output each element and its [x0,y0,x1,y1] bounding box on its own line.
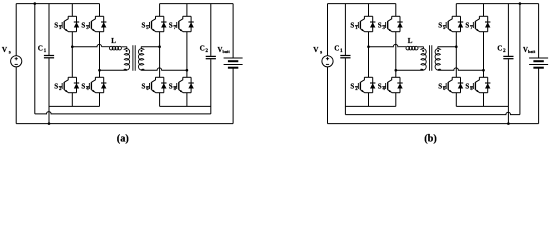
svg-text:S: S [465,83,469,91]
wire: C2 vertical bottom to tie bus (a) [210,59,212,114]
node: S7-S8 midpoint dot (a) [186,69,189,72]
wire: S5 leg to rail (b) [455,4,457,17]
wire: tie vertical from top rail (a) [34,4,36,114]
wire: S2 leg to lower rail (b) [368,93,370,107]
wire: tie vertical from top rail (b) [519,4,521,115]
wire: S5-S6 midpoint (a) [159,32,161,78]
wire: S6 leg to lower rail (a) [159,93,161,107]
svg-text:3: 3 [383,26,386,31]
node: S1-S2 midpoint dot (b) [367,45,370,48]
transformer polarity dot secondary (b) [437,50,439,52]
wire: right lower rail (b) [456,105,508,107]
wire: bridge midpoint to inductor (b) [369,44,399,46]
transistor S2 with antiparallel diode (b) [355,77,375,92]
transformer primary winding (a) [124,47,129,70]
wire: V_s vertical bottom (a) [15,67,17,124]
svg-text:2: 2 [355,87,358,92]
svg-text:2: 2 [503,48,506,54]
svg-text:S: S [81,22,85,30]
svg-text:S: S [465,22,469,30]
wire: secondary top to S5-S6 midpoint (b) [438,46,457,48]
node: S7-S8 midpoint dot (b) [482,69,485,72]
svg-text:L: L [408,37,413,45]
svg-text:S: S [378,83,382,91]
transistor S4 with antiparallel diode (a) [86,77,106,92]
wire: S7-S8 midpoint (b) [483,32,485,78]
wire: left lower rail (a) [49,105,100,107]
transformer secondary winding (a) [138,47,143,70]
wire: C2 vertical top (b) [507,4,509,56]
transformer polarity dot primary (b) [422,50,424,52]
svg-text:S: S [54,22,58,30]
svg-text:C: C [38,45,43,53]
wire: V_s vertical bottom (b) [327,67,329,124]
wire: S7 leg to rail (b) [483,4,485,17]
transformer primary winding (b) [421,47,426,70]
node: S1-S2 midpoint dot (a) [71,45,74,48]
wire: C2 rail extension to outer wire (b) [507,106,509,123]
wire: tie bus (a) full run [35,112,211,114]
wire: primary bottom to S3-S4 midpoint (a) [100,69,128,71]
wire: S2 leg to lower rail (a) [71,93,73,107]
svg-text:V: V [2,46,8,54]
capacitor C1 (b) [340,56,350,58]
svg-text:1: 1 [59,26,62,31]
svg-text:8: 8 [470,87,473,92]
wire: primary bottom to S3-S4 midpoint (b) [396,69,424,71]
svg-text:7: 7 [470,26,473,31]
transistor S6 with antiparallel diode (b) [443,77,463,92]
wire: C2 vertical top (a) [210,4,212,56]
inductor L (a) [102,46,127,50]
svg-text:C: C [497,45,502,53]
wire: left lower rail (b) [345,105,395,107]
wire: V_s vertical top (b) [327,4,329,56]
wire: S7-S8 midpoint (a) [186,32,188,78]
svg-text:S: S [169,83,173,91]
transistor S5 with antiparallel diode (b) [443,16,463,31]
transistor S8 with antiparallel diode (b) [470,77,490,92]
svg-text:4: 4 [86,87,89,92]
svg-text:C: C [200,45,205,53]
svg-text:batt: batt [528,49,536,54]
svg-text:C: C [334,45,339,53]
transistor S3 with antiparallel diode (a) [86,16,106,31]
transformer secondary winding (b) [435,47,440,70]
voltage source V_s (b) [322,56,333,67]
wire: right lower rail (a) [160,105,211,107]
transistor S1 with antiparallel diode (b) [355,16,375,31]
svg-text:S: S [142,22,146,30]
wire: S7 leg to rail (a) [186,4,188,17]
wire: C1 vertical bottom to outer wire (a) [48,58,50,123]
wire: S8 leg to lower rail (b) [483,93,485,107]
wire: S1 leg to rail (b) [368,4,370,17]
transistor S2 with antiparallel diode (a) [59,77,79,92]
voltage source V_s (a) [11,56,22,67]
wire: left top rail (a) [16,3,99,5]
wire: C1 vertical top (a) [48,4,50,55]
svg-text:batt: batt [223,49,231,54]
transistor S7 with antiparallel diode (b) [470,16,490,31]
capacitor C1 (a) [44,56,54,58]
wire: outer bottom wire (b) [328,123,539,125]
node: S3-S4 midpoint dot (a) [98,69,101,72]
wire: S4 leg to lower rail (a) [99,93,101,107]
wire: S1-S2 midpoint (b) [368,32,370,78]
wire: right top rail (a) [160,3,234,5]
transformer polarity dot primary (a) [126,50,128,52]
svg-text:1: 1 [44,48,47,54]
wire: secondary top to S5-S6 midpoint (a) [141,46,160,48]
svg-text:7: 7 [174,26,177,31]
transformer core (b) [430,45,432,70]
wire: V_s vertical top (a) [15,4,17,56]
wire: C1 lower extension to tie bus (b) [344,58,346,114]
svg-text:3: 3 [86,26,89,31]
transistor S8 with antiparallel diode (a) [173,77,193,92]
wire: S1-S2 midpoint (a) [71,32,73,78]
svg-text:S: S [169,22,173,30]
node: C1/outer-wire junction (a) [48,122,51,125]
wire: S1 leg to rail (a) [71,4,73,17]
wire: battery vertical bottom (b) [538,68,540,124]
wire: outer bottom wire (a) [16,123,233,125]
battery V_batt (b) [529,58,548,68]
node: S5-S6 midpoint dot (b) [455,45,458,48]
svg-text:S: S [378,22,382,30]
svg-text:S: S [54,83,58,91]
transistor S7 with antiparallel diode (a) [173,16,193,31]
transistor S5 with antiparallel diode (a) [146,16,166,31]
svg-text:1: 1 [340,48,343,54]
svg-text:6: 6 [443,87,446,92]
svg-text:L: L [111,37,116,45]
wire: S4 leg to lower rail (b) [395,93,397,107]
wire: C2 vertical bottom to outer wire (b) [507,59,509,106]
svg-text:S: S [350,83,354,91]
wire: S5 leg to rail (a) [159,4,161,17]
svg-text:S: S [438,83,442,91]
wire: secondary bottom to S7-S8 midpoint (a) [141,68,187,70]
inductor L (b) [398,46,423,50]
svg-text:2: 2 [205,48,208,54]
wire: S3-S4 midpoint (a) [99,32,101,78]
wire: C1 vertical top (b) [344,4,346,55]
node: tie junction on top rail (b) [519,2,522,5]
svg-text:5: 5 [146,26,149,31]
transformer core (a) [133,45,135,70]
wire: battery vertical top (b) [538,4,540,58]
wire: battery vertical top (a) [232,4,234,58]
wire: S3 leg to rail (b) [395,4,397,17]
svg-text:S: S [350,22,354,30]
node: tie junction on top rail (a) [34,2,37,5]
node: S3-S4 midpoint dot (b) [395,69,398,72]
transistor S4 with antiparallel diode (b) [382,77,402,92]
wire: S8 leg to lower rail (a) [186,93,188,107]
wire: S3-S4 midpoint (b) [395,32,397,78]
svg-text:5: 5 [443,26,446,31]
wire: tie bus horizontal (b) [345,112,520,114]
wire: bridge midpoint to inductor (a) [72,44,101,46]
capacitor C2 (a) [206,56,216,58]
svg-text:S: S [142,83,146,91]
svg-text:(a): (a) [117,134,129,145]
transistor S6 with antiparallel diode (a) [146,77,166,92]
svg-text:s: s [320,50,322,56]
transformer polarity dot secondary (a) [141,50,143,52]
node: S5-S6 midpoint dot (a) [158,45,161,48]
wire: S6 leg to lower rail (b) [455,93,457,107]
wire: S5-S6 midpoint (b) [455,32,457,78]
battery V_batt (a) [224,58,243,68]
wire: battery vertical bottom (a) [232,68,234,124]
wire: secondary bottom to S7-S8 midpoint (b) [438,68,484,70]
svg-text:4: 4 [383,87,386,92]
wire: left top rail (b) [328,3,396,5]
svg-text:S: S [81,83,85,91]
svg-text:6: 6 [146,87,149,92]
wire: right top rail (b) [456,3,538,5]
capacitor C2 (b) [503,56,513,58]
transistor S3 with antiparallel diode (b) [382,16,402,31]
svg-text:V: V [313,46,319,54]
wire: S3 leg to rail (a) [99,4,101,17]
svg-text:(b): (b) [424,134,437,145]
transistor S1 with antiparallel diode (a) [59,16,79,31]
svg-text:8: 8 [174,87,177,92]
node: rail/outer-wire junction (b) [507,122,510,125]
svg-text:S: S [438,22,442,30]
svg-text:s: s [9,50,11,56]
svg-text:2: 2 [59,87,62,92]
svg-text:1: 1 [355,26,358,31]
